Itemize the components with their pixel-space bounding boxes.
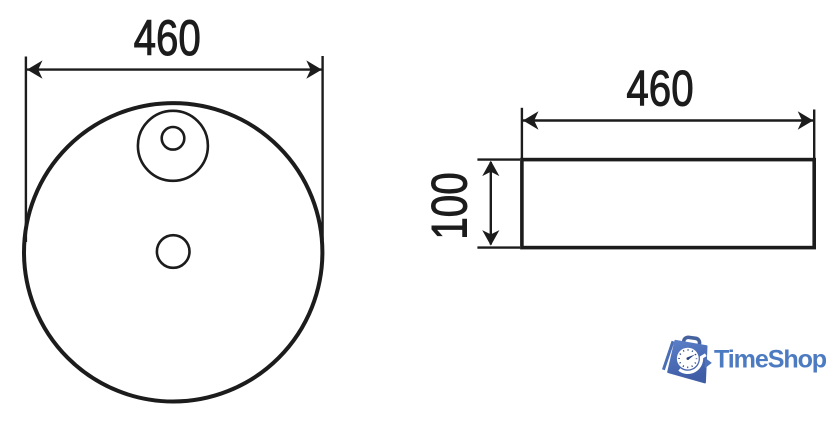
svg-text:TimeShop: TimeShop bbox=[714, 346, 827, 374]
svg-text:460: 460 bbox=[626, 60, 693, 116]
svg-text:460: 460 bbox=[134, 10, 201, 66]
svg-text:100: 100 bbox=[421, 172, 477, 239]
